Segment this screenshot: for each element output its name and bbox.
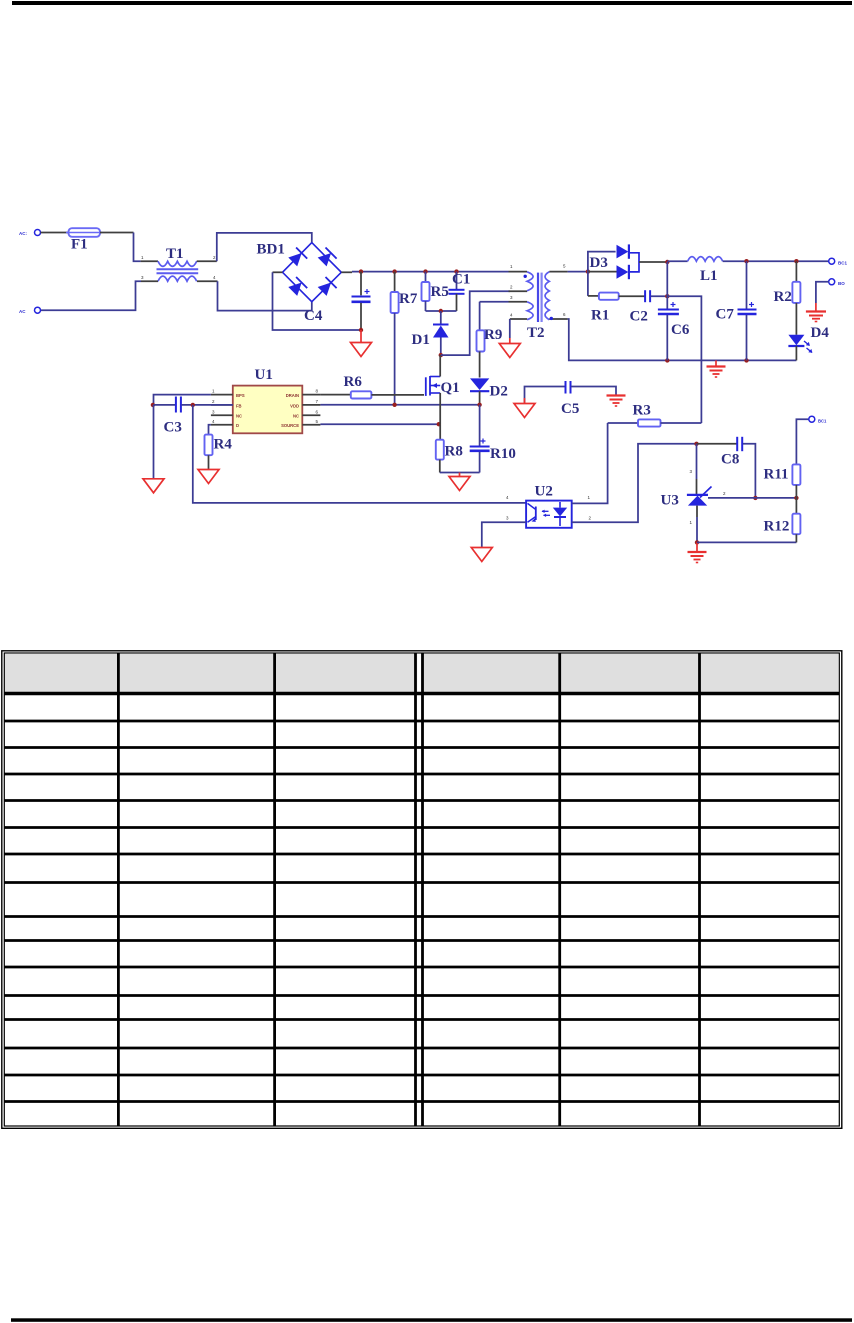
wire bridge left to negative bus <box>273 271 283 273</box>
svg-text:2: 2 <box>213 255 216 260</box>
terminal output- <box>829 279 835 285</box>
inductor L1 <box>667 260 687 262</box>
fuse F1 <box>69 228 101 237</box>
ground R4 <box>198 470 219 484</box>
svg-text:R5: R5 <box>431 284 449 300</box>
svg-text:U1: U1 <box>255 367 273 383</box>
wire feedback tap <box>667 296 701 423</box>
wire D3 out down to C6 <box>666 262 668 309</box>
wire snubber node <box>426 310 457 312</box>
resistor R9 <box>480 301 509 303</box>
svg-text:1: 1 <box>212 389 215 394</box>
svg-text:D: D <box>236 423 239 428</box>
resistor R7 <box>394 272 396 292</box>
wire U1 pin1 to ground node <box>154 395 211 405</box>
capacitor C5 <box>525 387 566 403</box>
svg-text:R7: R7 <box>399 291 418 307</box>
resistor R3 <box>608 422 638 424</box>
wire U3 ref <box>708 497 755 499</box>
svg-text:VDD: VDD <box>290 403 299 408</box>
svg-text:F1: F1 <box>71 237 88 253</box>
diode D2 <box>470 378 489 390</box>
svg-text:D2: D2 <box>490 384 508 400</box>
wire T2 secondary bottom to output return bus <box>568 319 797 360</box>
svg-text:R1: R1 <box>591 308 609 324</box>
bottom page rule <box>11 1318 852 1322</box>
wire VDD line <box>320 404 479 406</box>
svg-text:AC: AC <box>19 309 26 314</box>
svg-text:C2: C2 <box>630 309 648 325</box>
capacitor C1 <box>456 272 458 289</box>
diode D3 (dual) <box>588 252 616 272</box>
svg-text:U3: U3 <box>661 493 679 509</box>
capacitor C7 <box>746 261 748 308</box>
capacitor C2 <box>619 295 645 297</box>
transformer T1 <box>158 261 197 266</box>
resistor R1 <box>587 272 589 296</box>
svg-text:DRAIN: DRAIN <box>286 393 299 398</box>
svg-text:C6: C6 <box>671 322 690 338</box>
wire F1 to T1 <box>100 232 134 234</box>
wire R8 R10 bottom bus <box>440 472 480 474</box>
svg-text:4: 4 <box>506 495 509 500</box>
svg-text:R10: R10 <box>490 446 516 462</box>
wire T1 bottom stub left <box>141 280 158 282</box>
capacitor C3 <box>154 404 176 406</box>
svg-text:1: 1 <box>510 264 513 269</box>
svg-text:C8: C8 <box>721 452 739 468</box>
svg-text:R2: R2 <box>774 289 792 305</box>
ground R8/R10 <box>459 473 461 477</box>
svg-text:3: 3 <box>510 295 513 300</box>
svg-text:5: 5 <box>563 264 566 269</box>
ground output- terminal <box>816 282 829 303</box>
svg-text:1: 1 <box>690 520 693 525</box>
wire D3 output <box>639 261 667 263</box>
svg-text:R8: R8 <box>445 444 463 460</box>
svg-text:R6: R6 <box>344 374 363 390</box>
svg-text:5: 5 <box>316 419 319 424</box>
svg-text:T1: T1 <box>166 246 184 262</box>
table header divider white gap <box>417 654 421 692</box>
capacitor C8 <box>697 443 737 445</box>
svg-text:1: 1 <box>141 255 144 260</box>
IC U1 <box>233 386 302 434</box>
wire R6 to Q1 gate <box>371 394 424 396</box>
svg-text:2: 2 <box>723 491 726 496</box>
svg-text:6: 6 <box>563 312 566 317</box>
table header fill <box>5 654 839 692</box>
wire SOURCE line <box>320 423 438 425</box>
svg-text:7: 7 <box>316 399 319 404</box>
capacitor R10 (drawn as cap) <box>479 405 481 446</box>
svg-text:3: 3 <box>141 275 144 280</box>
svg-text:U2: U2 <box>535 484 553 500</box>
svg-text:NC: NC <box>236 414 242 419</box>
svg-text:6: 6 <box>316 409 319 414</box>
svg-text:Q1: Q1 <box>441 380 460 396</box>
svg-text:R11: R11 <box>764 467 789 483</box>
svg-text:D4: D4 <box>811 325 830 341</box>
wire main DC rail <box>352 271 509 273</box>
table grid horizontal lines <box>4 692 839 695</box>
wire bridge right to rail <box>341 271 352 273</box>
svg-text:BC1: BC1 <box>818 419 827 424</box>
svg-text:NC: NC <box>293 414 299 419</box>
svg-text:3: 3 <box>690 469 693 474</box>
svg-text:D1: D1 <box>412 332 430 348</box>
svg-text:BD1: BD1 <box>257 242 285 258</box>
wire T2 secondary top to D3 <box>568 271 588 273</box>
wire U3 anode bus <box>697 541 796 543</box>
diode D4 (LED) <box>795 303 797 335</box>
svg-text:R3: R3 <box>633 403 651 419</box>
wire U2 right top to R3 <box>572 423 608 503</box>
svg-text:C1: C1 <box>452 272 470 288</box>
transformer T2 <box>509 271 528 273</box>
ground output bus <box>715 360 717 366</box>
svg-text:C4: C4 <box>304 308 323 324</box>
svg-text:C3: C3 <box>164 420 182 436</box>
svg-text:2: 2 <box>510 285 513 290</box>
svg-text:T2: T2 <box>527 325 545 341</box>
svg-text:3: 3 <box>506 516 509 521</box>
svg-text:BO: BO <box>838 281 845 286</box>
wire AC to F1 <box>41 232 69 234</box>
resistor R5 <box>425 272 427 282</box>
svg-text:BC1: BC1 <box>838 261 847 266</box>
svg-text:D3: D3 <box>590 255 608 271</box>
wire AC neutral to T1 <box>41 281 141 310</box>
svg-text:C7: C7 <box>716 307 735 323</box>
capacitor C6 <box>658 309 679 311</box>
top page rule <box>12 1 852 5</box>
wire U2 right bottom to U3 line <box>572 444 697 523</box>
wire T1 bottom right to bridge bottom <box>197 280 218 282</box>
resistor R4 <box>209 425 211 435</box>
resistor R8 <box>439 424 441 440</box>
table grid vertical lines <box>117 653 120 1126</box>
svg-text:L1: L1 <box>700 268 718 284</box>
svg-text:R12: R12 <box>764 519 790 535</box>
svg-text:R9: R9 <box>484 327 502 343</box>
wire T1 top right to bridge top <box>197 260 217 262</box>
svg-text:BPS: BPS <box>236 393 245 398</box>
bridge rectifier BD1 <box>283 243 342 302</box>
svg-text:4: 4 <box>212 419 215 424</box>
resistor R12 <box>795 498 797 514</box>
ground C5 right <box>607 394 626 396</box>
resistor R2 <box>795 261 797 282</box>
svg-text:3: 3 <box>212 409 215 414</box>
svg-text:8: 8 <box>316 389 319 394</box>
ground T2 aux <box>509 319 511 338</box>
svg-text:C5: C5 <box>561 401 579 417</box>
ground U2 <box>471 548 492 562</box>
capacitor C4 <box>360 272 362 296</box>
resistor R11 <box>796 419 808 464</box>
ground C3 <box>153 405 155 479</box>
ground U3 <box>696 542 698 551</box>
wire T1 top stub <box>141 260 158 262</box>
shunt regulator U3 <box>696 444 698 479</box>
terminal sense <box>809 416 815 422</box>
optocoupler U2 <box>526 501 572 528</box>
LED arrows D4 <box>804 341 810 346</box>
svg-text:1: 1 <box>588 495 591 500</box>
wire U2 cathode to ground <box>482 522 526 547</box>
wire FB to optocoupler <box>193 405 526 503</box>
svg-text:FB: FB <box>236 403 242 408</box>
ground C4 <box>360 330 362 343</box>
terminal output+ <box>829 258 835 264</box>
resistor R6 <box>320 394 350 396</box>
svg-text:R4: R4 <box>214 437 233 453</box>
ground C5 left <box>524 398 526 404</box>
diode D1 <box>440 311 442 325</box>
transistor Q1 <box>425 377 427 396</box>
svg-text:2: 2 <box>589 516 592 521</box>
table outer border <box>2 651 842 1129</box>
svg-text:4: 4 <box>213 275 216 280</box>
wire clamp to T2 primary bottom <box>441 291 510 355</box>
svg-text:AC:: AC: <box>19 231 27 236</box>
svg-text:2: 2 <box>212 399 215 404</box>
svg-text:4: 4 <box>510 313 513 318</box>
table inner border <box>4 653 839 1126</box>
svg-text:SOURCE: SOURCE <box>281 423 299 428</box>
